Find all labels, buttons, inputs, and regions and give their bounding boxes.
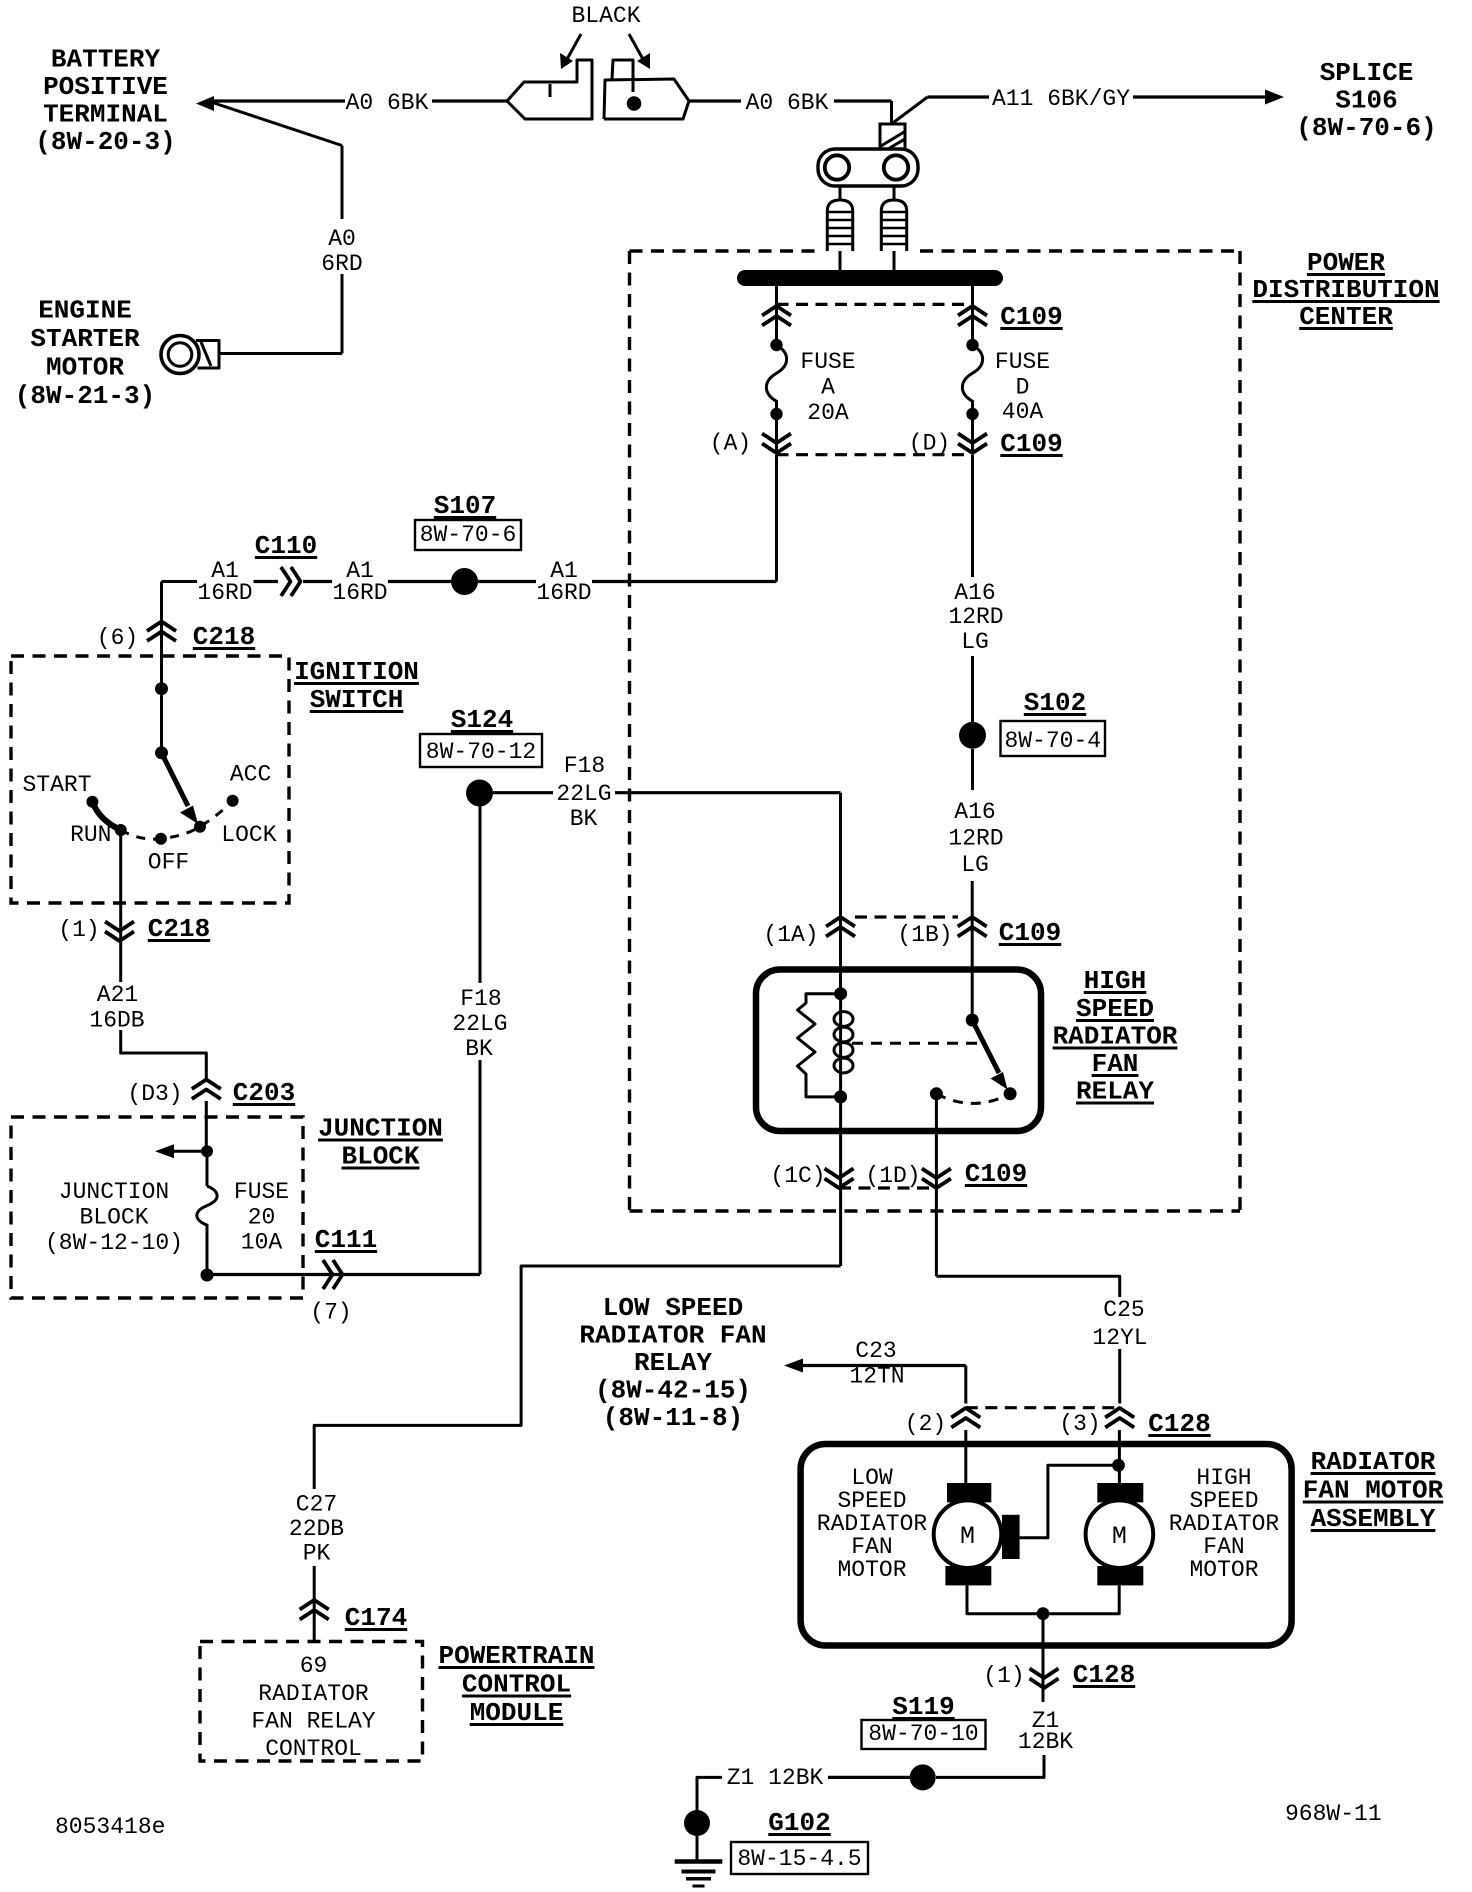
connector pin (3) [1105,1408,1134,1418]
wire A0 6BK to fusible link [834,99,892,102]
splice S102 [959,722,986,749]
ignition switch dashed box [11,656,289,903]
fuse D [966,339,978,351]
svg-text:JUNCTION: JUNCTION [59,1179,169,1205]
connector C203 pin (D3) [192,1080,221,1090]
wire A1 segment 3 [388,580,451,583]
relay contact dashed arc [936,1094,1010,1104]
connector C110 [281,567,291,596]
svg-text:BK: BK [570,806,598,832]
svg-text:A0 6BK: A0 6BK [346,90,429,116]
connector pin (1B) [958,917,987,927]
svg-text:(1B): (1B) [897,922,952,948]
wire Z1 down [936,1755,1044,1777]
svg-text:Z1 12BK: Z1 12BK [727,1765,824,1791]
svg-text:(8W-11-8): (8W-11-8) [603,1403,743,1433]
wire C27 to C174 [313,1566,316,1642]
wire A21 16DB [121,1030,207,1080]
relay common node [966,1014,979,1027]
relay coil resistor zigzag [798,994,841,1097]
svg-text:ENGINE: ENGINE [38,296,132,326]
svg-text:BLACK: BLACK [571,3,640,29]
svg-text:12TN: 12TN [849,1364,904,1390]
svg-text:(8W-21-3): (8W-21-3) [15,381,155,411]
wire A0 6RD vertical lower [341,274,344,354]
S107 reference box [415,520,521,550]
connector pin (1C) [825,1179,854,1189]
wire A0 6BK from connector [689,99,741,102]
svg-text:16RD: 16RD [536,580,591,606]
wire A1 segment 5 to PDC [592,580,777,583]
ignition switch wire [160,689,163,753]
low speed motor M1 [947,1483,991,1502]
bus bar [737,270,1003,286]
svg-text:BK: BK [465,1036,493,1062]
svg-text:12RD: 12RD [948,826,1003,852]
svg-text:C25: C25 [1103,1297,1144,1323]
connector C174 [300,1600,329,1610]
connector pin (1A) [826,917,855,927]
wire F18 riser lower [479,1060,482,1275]
wire A16 segment 3 [971,749,974,790]
svg-text:A11 6BK/GY: A11 6BK/GY [992,86,1130,112]
svg-text:22DB: 22DB [289,1516,344,1542]
svg-text:22LG: 22LG [452,1011,507,1037]
svg-text:BLOCK: BLOCK [79,1205,148,1231]
svg-text:A21: A21 [97,982,138,1008]
svg-text:FUSE: FUSE [800,349,855,375]
svg-text:FAN RELAY: FAN RELAY [251,1709,375,1735]
wire A11 to splice S106 [1133,95,1266,98]
S124 reference box [420,734,542,767]
svg-text:CONTROL: CONTROL [265,1736,362,1762]
svg-text:16RD: 16RD [332,580,387,606]
high speed radiator fan relay box [756,970,1041,1132]
connector pin (2) [951,1408,980,1418]
wire A1 segment 2 [303,580,332,583]
connector C109 pin at fuse A [775,286,778,345]
svg-text:16DB: 16DB [89,1008,144,1034]
ground symbol [696,1836,699,1861]
wire RUN output [119,830,122,982]
svg-text:(A): (A) [710,431,751,457]
ignition switch START-RUN bridge [92,802,120,830]
wire relay output to (1D) [935,1094,938,1277]
svg-text:69: 69 [300,1653,328,1679]
powertrain control module dashed box [200,1642,423,1762]
low speed relay arrowhead [784,1359,803,1373]
splice S107 [451,568,478,595]
svg-text:(1A): (1A) [763,922,818,948]
svg-text:(8W-12-10): (8W-12-10) [45,1230,183,1256]
wire A0 6BK battery terminal segment [214,99,345,102]
wire (2) into assembly [964,1430,967,1483]
svg-text:OFF: OFF [148,850,189,876]
contact ACC [227,795,239,807]
wire C23 12TN [803,1364,966,1367]
relay coil bottom node [834,1090,847,1103]
svg-text:8053418e: 8053418e [55,1814,165,1840]
svg-text:C27: C27 [296,1492,337,1518]
svg-text:TERMINAL: TERMINAL [43,100,168,130]
ignition detent dashed arc [121,801,233,839]
ignition switch pivot node [155,746,168,759]
ground node G102 [684,1810,710,1836]
svg-text:A0: A0 [328,226,356,252]
G102 reference box [731,1842,868,1874]
wire (1D) to fan motor [936,1276,1119,1297]
wire A11 6BK/GY [928,95,990,98]
junction block feed node [201,1145,213,1157]
svg-text:A16: A16 [954,799,995,825]
svg-text:(1): (1) [58,917,99,943]
svg-text:8W-70-12: 8W-70-12 [426,739,536,765]
radiator fan motor assembly box [801,1444,1292,1646]
svg-text:F18: F18 [460,986,501,1012]
wire A1 segment 4 [478,580,536,583]
wire Z1 to ground [697,1777,722,1810]
ignition switch wiper [162,753,189,806]
splice S106 arrowhead [1265,90,1284,105]
svg-text:MOTOR: MOTOR [837,1557,906,1583]
svg-text:RUN: RUN [70,822,111,848]
contact RUN [115,824,127,836]
fuse 20 [206,1151,209,1186]
inline connector left half [507,60,592,119]
wire A0 6RD vertical upper [341,146,344,220]
connector C218 pin (6) [147,622,176,632]
svg-text:8W-70-10: 8W-70-10 [868,1721,978,1747]
wire C25 to motor [1118,1349,1121,1404]
svg-text:(1D): (1D) [865,1163,920,1189]
svg-text:20: 20 [248,1205,276,1231]
connector C109 relay dashed row [855,915,958,918]
svg-text:START: START [22,772,91,798]
svg-text:LOW SPEED: LOW SPEED [603,1293,743,1323]
wire (3) into assembly [1118,1430,1121,1483]
wire F18 segment 2 [615,791,841,794]
svg-text:(2): (2) [905,1411,946,1437]
svg-text:RELAY: RELAY [634,1348,712,1378]
svg-text:RADIATOR: RADIATOR [258,1681,369,1707]
power distribution center dashed box [630,249,817,252]
connector C109 upper dashed row [777,303,973,306]
svg-text:(3): (3) [1059,1411,1100,1437]
relay output node [930,1087,943,1100]
connector C109 lower dashed row [777,453,973,456]
connector C128 dashed row [966,1406,1120,1409]
svg-text:MOTOR: MOTOR [46,353,124,383]
wire F18 to relay coil [493,791,553,794]
wire A11 diagonal [892,97,928,124]
inline connector right half [604,79,689,119]
connector C111 [323,1260,333,1289]
connector C109 pin at fuse D [971,286,974,345]
wire ground exit [1042,1614,1045,1702]
wire F18 from fuse 20 [213,1273,480,1276]
wire (1C) to PCM [314,1266,840,1489]
svg-text:(6): (6) [97,625,138,651]
wire into junction block [205,1101,208,1151]
svg-text:16RD: 16RD [197,580,252,606]
svg-text:STARTER: STARTER [30,324,140,354]
motor ground node [1037,1607,1050,1620]
wire F18 riser upper [479,806,482,983]
svg-text:POSITIVE: POSITIVE [43,72,168,102]
svg-text:8W-70-6: 8W-70-6 [420,522,517,548]
relay coil loops [839,994,842,1097]
arrow from BLACK to right connector half [629,34,644,61]
svg-text:12YL: 12YL [1092,1325,1147,1351]
svg-text:M: M [1112,1522,1127,1551]
svg-text:(1C): (1C) [770,1163,825,1189]
connector pin (1D) [922,1179,951,1189]
relay NO contact node [1004,1087,1017,1100]
svg-text:A0 6BK: A0 6BK [746,90,829,116]
arrow from BLACK to left connector half [566,34,581,61]
coil terminal right [893,186,896,200]
svg-text:8W-15-4.5: 8W-15-4.5 [737,1846,861,1872]
wire relay coil to (1C) [839,1097,842,1266]
svg-text:6RD: 6RD [321,251,362,277]
svg-text:RADIATOR FAN: RADIATOR FAN [579,1321,766,1351]
svg-text:(8W-42-15): (8W-42-15) [595,1376,751,1406]
wire A0 6RD diagonal [214,103,342,146]
wire A1 segment [254,580,279,583]
contact LOCK [194,821,206,833]
battery positive terminal arrowhead [196,96,214,111]
wire A16 segment 2 [971,656,974,722]
svg-text:A16: A16 [954,580,995,606]
svg-text:40A: 40A [1002,399,1044,425]
svg-text:ACC: ACC [230,762,271,788]
relay actuator dashed link [852,1042,978,1045]
svg-text:22LG: 22LG [556,781,611,807]
connector C218 pin (1) [105,932,134,942]
wire A16 from fuse D [971,455,974,577]
svg-text:F18: F18 [564,753,605,779]
wire Z1 left of splice [828,1776,910,1779]
wire A1 16RD corner [162,580,198,583]
fusible link [880,124,905,149]
svg-text:FUSE: FUSE [995,349,1050,375]
svg-text:(7): (7) [310,1300,351,1326]
svg-text:D: D [1016,375,1030,401]
S102 reference box [1001,721,1106,756]
fuse A [770,339,782,351]
relay switch blade [972,1020,999,1073]
svg-text:(8W-20-3): (8W-20-3) [35,127,175,157]
junction block feed arrow [172,1150,207,1153]
svg-text:SPLICE: SPLICE [1320,58,1414,88]
wire ignition feed [160,582,163,689]
svg-text:8W-70-4: 8W-70-4 [1004,728,1101,754]
svg-text:MOTOR: MOTOR [1189,1557,1258,1583]
svg-text:(1): (1) [983,1663,1024,1689]
high speed motor M2 [1097,1483,1143,1502]
svg-text:S106: S106 [1335,86,1397,116]
relay coil top node [834,987,847,1000]
wire M1 to high speed feed [1020,1465,1119,1537]
contact OFF [155,833,167,845]
svg-text:(8W-70-6): (8W-70-6) [1296,113,1436,143]
connector C109 (1C)(1D) dashed row [839,1186,936,1189]
contact START [86,796,98,808]
node on high speed feed [1112,1459,1125,1472]
connector pin (A) [775,414,778,453]
battery feed stud block [818,149,918,186]
svg-text:20A: 20A [807,400,849,426]
coil terminal left [839,186,842,200]
svg-text:BATTERY: BATTERY [51,45,161,75]
svg-text:968W-11: 968W-11 [1285,1801,1382,1827]
svg-text:A: A [821,375,835,401]
splice S119 [910,1764,936,1790]
wire motor grounds [967,1585,1119,1613]
S119 reference box [862,1720,986,1749]
engine starter motor ring terminal [161,336,199,374]
svg-text:(D3): (D3) [127,1081,182,1107]
connector C128 pin (1) [1030,1679,1059,1689]
splice S124 [466,780,493,807]
svg-text:10A: 10A [241,1230,283,1256]
svg-text:LG: LG [961,629,989,655]
connector pin (D) [971,414,974,453]
svg-text:12BK: 12BK [1018,1729,1073,1755]
svg-text:M: M [960,1522,975,1551]
relay common wire [971,881,974,1020]
svg-text:12RD: 12RD [948,604,1003,630]
junction block dashed box [11,1117,303,1298]
svg-text:FUSE: FUSE [234,1179,289,1205]
ignition switch feed node [155,682,168,695]
svg-text:LOCK: LOCK [221,822,276,848]
svg-text:PK: PK [303,1541,331,1567]
svg-text:LG: LG [961,852,989,878]
wire A0 6BK to connector [432,99,507,102]
svg-text:C23: C23 [855,1338,896,1364]
svg-text:(D): (D) [909,431,950,457]
